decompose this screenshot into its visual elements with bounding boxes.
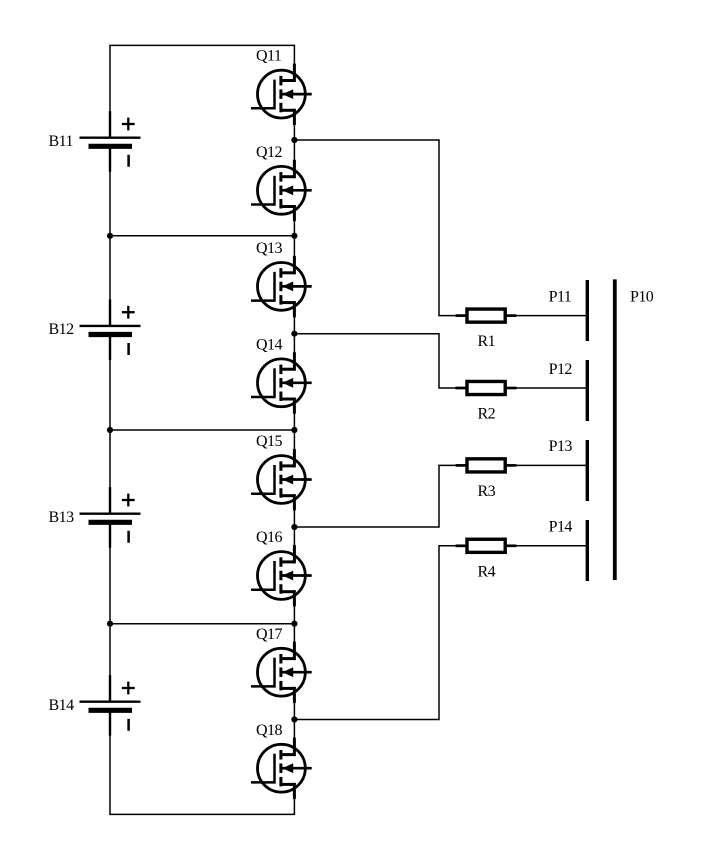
wire B13- to B14+ [109, 547, 111, 677]
transistor Q15 (N-MOSFET) [251, 433, 312, 510]
wire bottom horizontal (B14 - to Q18 source) [109, 813, 295, 815]
resistor R1 [456, 309, 517, 350]
junction node Q11/Q12 [291, 137, 297, 143]
svg-text:Q13: Q13 [256, 240, 282, 257]
transistor Q16 (N-MOSFET) [251, 529, 312, 606]
wire Q17-Q18 (node G) [293, 701, 295, 739]
svg-text:Q14: Q14 [256, 336, 282, 353]
wire R3 to pin P13 [516, 464, 586, 466]
wire node Q13/Q14 to R2 [294, 334, 456, 388]
svg-text:R2: R2 [478, 406, 496, 423]
transistor Q12 (N-MOSFET) [251, 144, 312, 221]
transistor Q14 (N-MOSFET) [251, 336, 312, 413]
junction node Q14/Q15 [291, 427, 297, 433]
battery B13 [49, 487, 141, 548]
svg-text:P12: P12 [549, 361, 573, 378]
svg-text:B12: B12 [49, 321, 75, 338]
wire Q11-Q12 (node A) [293, 123, 295, 161]
wire node Q11/Q12 to R1 [294, 140, 456, 316]
junction node Q13/Q14 [291, 331, 297, 337]
wire R4 to pin P14 [516, 545, 586, 547]
junction node B12/B13 [107, 427, 113, 433]
svg-text:P11: P11 [549, 288, 572, 305]
junction node Q15/Q16 [291, 524, 297, 530]
junction node B13/B14 [107, 621, 113, 627]
wire node Q17/Q18 to R4 [294, 546, 456, 720]
wire Q11 drain [293, 45, 295, 65]
wire node B13/B14 to node Q16/Q17 [110, 623, 294, 625]
battery B14 [49, 675, 141, 736]
resistor R4 [456, 539, 517, 580]
wire node B12/B13 to node Q14/Q15 [110, 429, 294, 431]
svg-text:B13: B13 [49, 509, 75, 526]
svg-text:P14: P14 [549, 519, 573, 536]
wire battery column bottom (B14 - down) [109, 735, 111, 815]
wire Q14-Q15 (node D) [293, 412, 295, 451]
svg-text:Q15: Q15 [256, 433, 282, 450]
resistor R3 [456, 459, 517, 500]
connector P10 common bar [615, 279, 654, 580]
wire node B11/B12 to node Q12/Q13 [110, 235, 294, 237]
wire B12- to B13+ [109, 359, 111, 489]
wire Q15-Q16 (node E) [293, 509, 295, 547]
transistor Q13 (N-MOSFET) [251, 240, 312, 317]
svg-text:Q17: Q17 [256, 626, 282, 643]
connector pin P13 [549, 438, 588, 501]
wire B11- to B12+ [109, 171, 111, 301]
svg-text:P10: P10 [630, 289, 654, 306]
wire Q13-Q14 (node C) [293, 315, 295, 353]
wire Q12-Q13 (node B) [293, 219, 295, 257]
svg-text:R3: R3 [478, 483, 496, 500]
junction node Q12/Q13 [291, 233, 297, 239]
wire Q16-Q17 (node F) [293, 605, 295, 644]
transistor Q18 (N-MOSFET) [251, 722, 312, 799]
svg-text:Q12: Q12 [256, 144, 282, 161]
resistor R2 [456, 381, 517, 422]
junction node Q16/Q17 [291, 621, 297, 627]
svg-text:Q11: Q11 [256, 48, 282, 65]
svg-text:R1: R1 [478, 333, 496, 350]
wire battery column top (to B11 +) [109, 45, 111, 112]
svg-text:B11: B11 [49, 133, 74, 150]
transistor Q17 (N-MOSFET) [251, 626, 312, 703]
junction node Q17/Q18 [291, 716, 297, 722]
connector pin P14 [549, 519, 588, 581]
junction node B11/B12 [107, 233, 113, 239]
wire top horizontal (battery + to Q11 drain) [109, 44, 295, 46]
transistor Q11 (N-MOSFET) [251, 48, 312, 125]
battery B11 [49, 111, 141, 172]
svg-text:Q16: Q16 [256, 529, 282, 546]
svg-text:R4: R4 [478, 563, 496, 580]
connector pin P11 [549, 280, 588, 341]
svg-text:P13: P13 [549, 438, 573, 455]
wire node Q15/Q16 to R3 [294, 465, 456, 527]
battery B12 [49, 299, 141, 360]
wire Q18 source to bottom [293, 797, 295, 814]
wire R2 to pin P12 [516, 387, 586, 389]
svg-text:B14: B14 [49, 697, 75, 714]
wire R1 to pin P11 [516, 315, 586, 317]
connector pin P12 [549, 360, 588, 421]
svg-text:Q18: Q18 [256, 722, 282, 739]
